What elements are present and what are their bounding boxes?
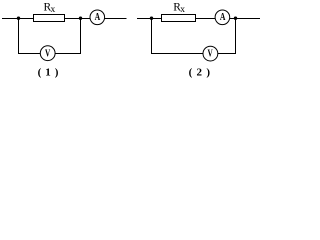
svg-text:V: V [45, 48, 50, 60]
svg-text:x: x [180, 5, 185, 15]
svg-text:V: V [207, 48, 212, 60]
svg-text:x: x [51, 5, 56, 15]
svg-text:A: A [220, 12, 226, 24]
svg-text:(1): (1) [38, 67, 63, 79]
svg-text:(2): (2) [189, 67, 215, 79]
svg-text:A: A [95, 12, 101, 24]
